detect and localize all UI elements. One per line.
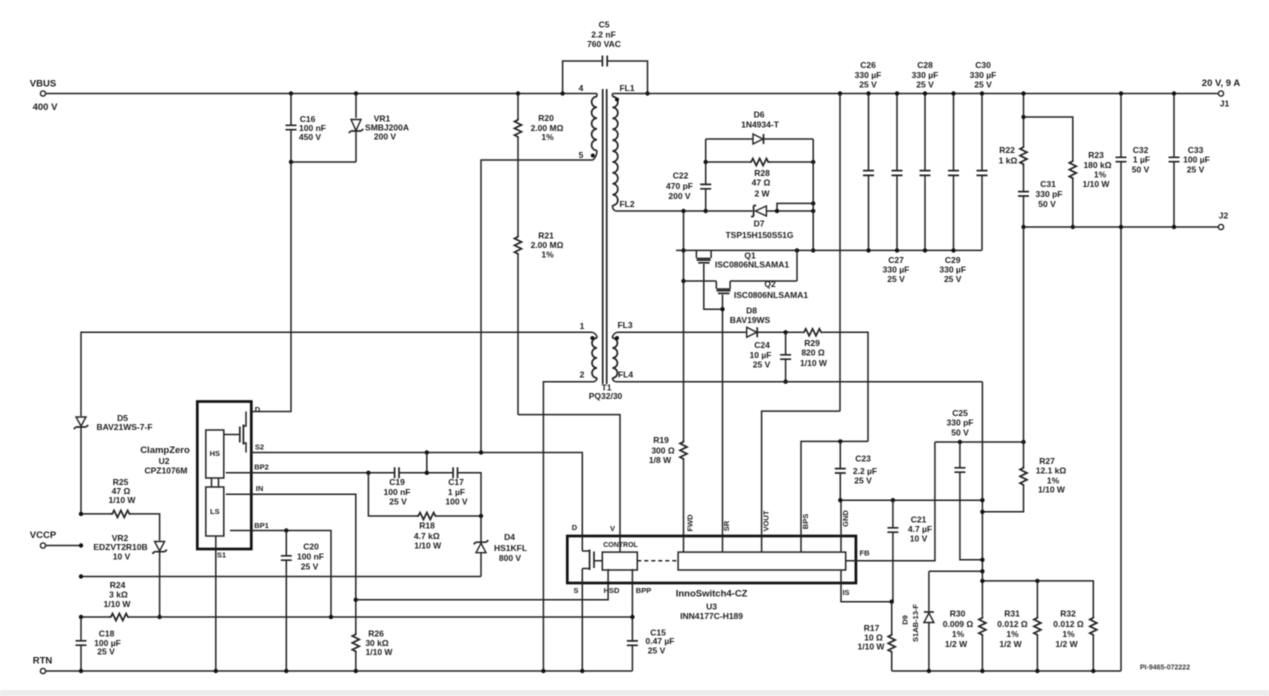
svg-text:S2: S2 xyxy=(255,443,264,452)
wire U2 BP1 xyxy=(251,531,331,618)
svg-text:IS: IS xyxy=(842,588,849,597)
junction S2/C19-C17 mid riser xyxy=(425,450,429,454)
junction gates xyxy=(720,307,724,311)
junction gnd bus at sense line xyxy=(980,498,984,502)
resistor R17 xyxy=(888,633,895,654)
node J1 terminal xyxy=(1218,91,1223,96)
diode D4 xyxy=(480,516,482,542)
svg-text:D9: D9 xyxy=(901,615,910,625)
junction C16 bottom xyxy=(289,160,293,164)
svg-text:R32: R32 xyxy=(1060,609,1076,619)
svg-text:C22: C22 xyxy=(673,171,689,181)
U3 control block xyxy=(602,552,637,570)
svg-text:10 µF: 10 µF xyxy=(750,350,772,360)
junction bus at R31 xyxy=(1035,579,1039,583)
junction C24 top xyxy=(783,330,787,334)
svg-text:1/8 W: 1/8 W xyxy=(649,455,672,465)
wire J2 return rail xyxy=(1024,226,1219,228)
svg-text:FL2: FL2 xyxy=(619,199,634,209)
svg-text:470 pF: 470 pF xyxy=(666,181,693,191)
transformer bias winding pins 1-2 xyxy=(592,338,597,378)
svg-text:25 V: 25 V xyxy=(648,645,666,655)
svg-text:LS: LS xyxy=(210,507,220,516)
junction R26 at RTN xyxy=(354,669,358,673)
capacitor C31 xyxy=(1018,192,1029,196)
junction S at RTN xyxy=(580,669,584,673)
junction BP2 loop mid xyxy=(425,471,429,475)
junction C16 top xyxy=(289,91,293,95)
transformer T1 core xyxy=(603,89,607,384)
svg-text:820 Ω: 820 Ω xyxy=(801,348,825,358)
wire FL4 node down sense bus xyxy=(981,382,983,616)
junction D9 at sense line xyxy=(980,569,984,573)
bottom gray band xyxy=(0,690,1269,696)
svg-text:CPZ1076M: CPZ1076M xyxy=(145,465,188,475)
svg-text:C26: C26 xyxy=(860,60,876,70)
svg-text:1: 1 xyxy=(580,321,585,331)
wire Q source bus right edge xyxy=(796,250,798,281)
svg-text:C5: C5 xyxy=(599,20,610,30)
wire VBUS secondary rail to J1 xyxy=(612,93,1218,95)
junction R27 top of rail xyxy=(1021,225,1025,229)
svg-text:C25: C25 xyxy=(952,408,968,418)
junction Q1 source box right xyxy=(795,248,799,252)
junction VCCP xyxy=(79,543,83,547)
resistor R21 xyxy=(515,235,522,256)
svg-text:1%: 1% xyxy=(952,629,965,639)
wire riser S2 to BP2 loop mid xyxy=(426,453,428,473)
wire VBUS top rail (primary segment) xyxy=(46,93,597,95)
junction BP1/C20 xyxy=(284,528,288,532)
svg-text:FL1: FL1 xyxy=(619,83,634,93)
wire GND riser xyxy=(840,500,842,536)
wire IS pin link xyxy=(841,570,892,602)
svg-text:4.7 µF: 4.7 µF xyxy=(908,524,932,534)
svg-text:25 V: 25 V xyxy=(974,79,992,89)
junction VR2 bottom xyxy=(157,615,161,619)
svg-text:200 V: 200 V xyxy=(374,132,397,142)
junction R31 at return rail xyxy=(1035,669,1039,673)
U3 secondary block xyxy=(678,552,846,570)
svg-text:R27: R27 xyxy=(1039,456,1055,466)
transistor Q2 xyxy=(715,281,717,289)
svg-text:400 V: 400 V xyxy=(33,102,58,113)
svg-text:BPS: BPS xyxy=(801,514,810,529)
IC U2 ClampZero xyxy=(197,402,251,550)
svg-text:100 µF: 100 µF xyxy=(1183,155,1210,165)
wire VOUT sense riser xyxy=(839,94,841,412)
svg-text:BAV19WS: BAV19WS xyxy=(730,315,771,325)
svg-text:1/10 W: 1/10 W xyxy=(1083,179,1111,189)
polarity dot pin1 xyxy=(590,336,594,340)
svg-text:ClampZero: ClampZero xyxy=(140,445,190,456)
junction D7 jog xyxy=(775,209,779,213)
junction pin2 at RTN xyxy=(541,669,545,673)
wire BPP pin down xyxy=(631,569,633,641)
svg-text:D4: D4 xyxy=(504,532,515,542)
svg-text:D7: D7 xyxy=(754,219,765,229)
node VCCP terminal xyxy=(40,543,45,548)
wire U3 S pin to RTN xyxy=(581,583,583,671)
junction D4 rail at D5 line xyxy=(79,574,83,578)
wire Q2 drain bus xyxy=(684,280,798,282)
svg-text:50 V: 50 V xyxy=(1132,164,1150,174)
svg-text:0.012 Ω: 0.012 Ω xyxy=(1053,619,1084,629)
wire secondary return rail xyxy=(892,670,1121,672)
svg-text:FWD: FWD xyxy=(686,514,695,532)
junction R32 at return rail xyxy=(1091,669,1095,673)
svg-text:C24: C24 xyxy=(754,340,770,350)
capacitor C19 xyxy=(395,467,399,478)
svg-text:5: 5 xyxy=(579,150,584,160)
wire FB link xyxy=(846,442,935,561)
svg-text:25 V: 25 V xyxy=(301,561,319,571)
diode D6 xyxy=(706,138,814,140)
svg-text:25 V: 25 V xyxy=(859,79,877,89)
svg-text:100 nF: 100 nF xyxy=(297,552,324,562)
svg-text:GND: GND xyxy=(841,510,850,527)
svg-text:TSP15H150S51G: TSP15H150S51G xyxy=(725,230,793,240)
junction S1 at RTN xyxy=(214,669,218,673)
svg-text:VCCP: VCCP xyxy=(30,530,57,541)
svg-text:47 Ω: 47 Ω xyxy=(752,178,771,188)
wire HSD link xyxy=(356,569,608,600)
svg-text:25 V: 25 V xyxy=(944,274,962,284)
svg-text:D: D xyxy=(572,523,578,532)
svg-text:C20: C20 xyxy=(303,542,319,552)
svg-text:Q2: Q2 xyxy=(764,279,776,289)
svg-text:IN: IN xyxy=(256,484,264,493)
wire BPP supply rail xyxy=(81,616,632,618)
svg-text:HSD: HSD xyxy=(604,586,620,595)
svg-text:330 µF: 330 µF xyxy=(912,70,939,80)
transformer output winding FL3-FL4 xyxy=(612,338,617,378)
svg-text:1 kΩ: 1 kΩ xyxy=(999,155,1018,165)
capacitor C28 xyxy=(924,94,926,251)
transistor Q1 xyxy=(695,250,697,258)
junction FWD riser top xyxy=(681,209,685,213)
wire FWD riser (FL2 node down to FWD pin) xyxy=(683,211,685,440)
wire sense resistor top bus xyxy=(982,581,1093,616)
svg-text:2.2 µF: 2.2 µF xyxy=(853,466,877,476)
wire gnd node bus xyxy=(840,499,982,501)
svg-text:BP1: BP1 xyxy=(254,521,269,530)
wire FL4 output xyxy=(615,381,982,383)
polarity dot FL1 xyxy=(615,98,619,102)
junction R27 at FB bus xyxy=(1021,440,1025,444)
capacitor C24 xyxy=(785,332,787,381)
svg-text:1N4934-T: 1N4934-T xyxy=(741,119,780,129)
svg-text:HS: HS xyxy=(210,449,220,458)
capacitor C20 xyxy=(285,531,287,672)
wire pin2 to RTN xyxy=(543,382,594,671)
svg-text:1 µF: 1 µF xyxy=(1133,155,1150,165)
wire pin5 to S2 node xyxy=(481,160,593,453)
svg-text:FB: FB xyxy=(860,549,871,558)
resistor R30 xyxy=(979,616,986,637)
svg-text:R19: R19 xyxy=(653,435,669,445)
resistor R24 xyxy=(109,614,130,621)
svg-text:1/10 W: 1/10 W xyxy=(104,599,132,609)
junction BPP at supply rail xyxy=(630,615,634,619)
junction VR1 top xyxy=(354,91,358,95)
svg-text:330 µF: 330 µF xyxy=(970,70,997,80)
svg-text:InnoSwitch4-CZ: InnoSwitch4-CZ xyxy=(676,589,748,600)
svg-text:0.012 Ω: 0.012 Ω xyxy=(997,619,1028,629)
svg-text:0.009 Ω: 0.009 Ω xyxy=(943,619,974,629)
junction C24 bottom xyxy=(783,380,787,384)
junction jog right top xyxy=(811,201,815,205)
junction rail at D5 line xyxy=(79,615,83,619)
resistor R26 xyxy=(352,633,359,654)
svg-text:1/10 W: 1/10 W xyxy=(1038,485,1066,495)
junction R20 top xyxy=(516,91,520,95)
svg-text:300 Ω: 300 Ω xyxy=(651,445,675,455)
svg-text:ISC0806NLSAMA1: ISC0806NLSAMA1 xyxy=(734,290,808,300)
svg-text:180 kΩ: 180 kΩ xyxy=(1083,160,1111,170)
junction C21 top xyxy=(891,498,895,502)
capacitor C29 xyxy=(953,94,955,251)
diode D5 xyxy=(76,417,86,426)
junction R30 at return rail xyxy=(980,669,984,673)
junction VOUT riser at +20V rail xyxy=(838,91,842,95)
junction R25 left xyxy=(79,512,83,516)
svg-text:C30: C30 xyxy=(975,60,991,70)
transformer primary winding pins 4-5 xyxy=(596,94,598,97)
svg-text:330 µF: 330 µF xyxy=(855,70,882,80)
svg-text:CONTROL: CONTROL xyxy=(603,542,638,549)
U3 secondary pin stubs xyxy=(620,536,841,552)
wire snubber right edge down xyxy=(812,139,814,250)
junction R22/R23 split xyxy=(1021,115,1025,119)
wire C16/VR1 bottom link xyxy=(291,161,356,163)
resistor R23 xyxy=(1024,117,1073,159)
U2 internal mosfet xyxy=(224,412,246,453)
svg-text:1 µF: 1 µF xyxy=(448,487,465,497)
capacitor C22 xyxy=(705,139,707,211)
svg-text:ISC0806NLSAMA1: ISC0806NLSAMA1 xyxy=(715,260,789,270)
U2 block neck xyxy=(212,478,219,487)
wire VOUT riser lower xyxy=(762,411,840,536)
junction C22 at FL2 xyxy=(704,209,708,213)
svg-text:S1AB-13-F: S1AB-13-F xyxy=(911,604,920,642)
svg-text:1%: 1% xyxy=(541,132,554,142)
svg-text:12.1 kΩ: 12.1 kΩ xyxy=(1036,466,1067,476)
svg-text:VOUT: VOUT xyxy=(762,510,771,531)
zener VR2 xyxy=(155,542,165,552)
resistor R22 xyxy=(1023,94,1025,146)
capacitor C5 xyxy=(563,61,648,94)
svg-text:C31: C31 xyxy=(1040,179,1056,189)
node RTN terminal xyxy=(40,668,45,673)
wire U2 IN to R26/HSD node xyxy=(251,494,355,632)
junction FL1 rail xyxy=(645,91,649,95)
wire secondary ground bus xyxy=(676,249,982,251)
svg-text:4: 4 xyxy=(579,83,584,93)
junction S2/pin5 xyxy=(479,450,483,454)
junction snubber at gnd bus xyxy=(811,248,815,252)
svg-text:D8: D8 xyxy=(746,305,757,315)
junction C25 bottom at sense line xyxy=(980,558,984,562)
wire U2 S1 down xyxy=(215,549,217,671)
svg-text:20 V, 9 A: 20 V, 9 A xyxy=(1202,78,1241,89)
svg-text:FL4: FL4 xyxy=(618,370,633,380)
resistor R29 xyxy=(802,329,823,336)
resistor R27 xyxy=(1023,227,1025,466)
svg-text:800 V: 800 V xyxy=(499,553,522,563)
node VBUS terminal xyxy=(40,91,45,96)
svg-text:VBUS: VBUS xyxy=(30,79,56,90)
U3 dashed link xyxy=(637,560,678,562)
svg-text:25 V: 25 V xyxy=(916,79,934,89)
svg-text:1/2 W: 1/2 W xyxy=(945,639,968,649)
resistor R25 xyxy=(81,513,111,515)
svg-text:25 V: 25 V xyxy=(97,647,115,657)
wire FL2 output xyxy=(615,210,705,212)
resistor R28 xyxy=(706,161,750,163)
svg-text:25 V: 25 V xyxy=(1187,164,1205,174)
junction R28 right xyxy=(811,160,815,164)
svg-text:FL3: FL3 xyxy=(617,320,632,330)
capacitor C15 xyxy=(627,641,638,645)
svg-text:R30: R30 xyxy=(950,609,966,619)
svg-text:330 µF: 330 µF xyxy=(883,264,910,274)
svg-text:PI-9465-072222: PI-9465-072222 xyxy=(1140,664,1190,671)
svg-text:200 V: 200 V xyxy=(668,191,691,201)
svg-text:1/10 W: 1/10 W xyxy=(858,641,886,651)
svg-text:1/10 W: 1/10 W xyxy=(414,541,442,551)
wire U2 S2 to U3 D xyxy=(251,453,582,537)
junction bus at R30 xyxy=(980,579,984,583)
capacitor C25 xyxy=(960,442,983,560)
U3 internal mosfet xyxy=(582,536,602,583)
svg-text:1/10 W: 1/10 W xyxy=(366,647,394,657)
svg-text:R31: R31 xyxy=(1004,609,1020,619)
svg-text:1/10 W: 1/10 W xyxy=(800,358,828,368)
svg-text:SR: SR xyxy=(722,520,731,531)
svg-text:2.2 nF: 2.2 nF xyxy=(591,29,616,39)
svg-text:25 V: 25 V xyxy=(389,497,407,507)
junction IN riser at HSD wire xyxy=(354,598,358,602)
svg-text:BP2: BP2 xyxy=(254,463,269,472)
svg-text:4.7 kΩ: 4.7 kΩ xyxy=(414,531,440,541)
svg-text:R22: R22 xyxy=(999,145,1015,155)
svg-text:25 V: 25 V xyxy=(753,360,771,370)
svg-text:1%: 1% xyxy=(1062,629,1075,639)
junction IS node xyxy=(890,600,894,604)
junction R23 bottom xyxy=(1071,225,1075,229)
svg-text:C23: C23 xyxy=(855,453,871,463)
capacitor C17 xyxy=(453,467,457,478)
svg-text:1/2 W: 1/2 W xyxy=(999,639,1022,649)
svg-text:330 pF: 330 pF xyxy=(1036,189,1063,199)
svg-text:2 W: 2 W xyxy=(754,189,770,199)
svg-text:R29: R29 xyxy=(804,338,820,348)
junction C25 top xyxy=(958,440,962,444)
junction riser at gnd bus xyxy=(681,248,685,252)
svg-text:3 kΩ: 3 kΩ xyxy=(109,590,128,600)
junction R27 bottom at sense line xyxy=(980,510,984,514)
svg-text:BAV21WS-7-F: BAV21WS-7-F xyxy=(96,422,152,432)
capacitor C21 xyxy=(892,500,894,602)
resistor R20 xyxy=(517,94,519,119)
svg-text:R23: R23 xyxy=(1088,150,1104,160)
svg-text:BPP: BPP xyxy=(636,586,651,595)
svg-text:100 V: 100 V xyxy=(445,497,468,507)
svg-text:R21: R21 xyxy=(538,230,554,240)
wire R21 bottom over to V pin xyxy=(518,415,620,536)
capacitor C30 xyxy=(981,94,983,251)
wire U2 BP2 loop top xyxy=(251,473,481,514)
wire Q1 gate xyxy=(704,264,723,309)
diode D8 xyxy=(747,327,757,337)
junction BP1 riser at rail xyxy=(329,615,333,619)
svg-text:C28: C28 xyxy=(917,60,933,70)
junction C23 bottom xyxy=(838,498,842,502)
wire FL3 output xyxy=(617,331,747,333)
svg-text:1%: 1% xyxy=(1006,629,1019,639)
resistor R19 xyxy=(680,440,687,461)
U2 HS block xyxy=(206,430,224,478)
wire Q2 gate to SR xyxy=(722,295,724,536)
U2 internal stubs xyxy=(216,473,252,549)
capacitor C18 xyxy=(80,617,82,671)
svg-text:25 V: 25 V xyxy=(887,274,905,284)
capacitor C16 xyxy=(290,94,292,163)
svg-text:1/10 W: 1/10 W xyxy=(109,495,137,505)
wire BPS riser xyxy=(801,441,868,536)
svg-text:R18: R18 xyxy=(419,521,435,531)
svg-text:INN4177C-H189: INN4177C-H189 xyxy=(680,611,743,621)
wire RTN rail (primary) xyxy=(46,670,633,672)
diode D9 xyxy=(928,571,930,611)
capacitor C27 xyxy=(896,94,898,251)
svg-text:D6: D6 xyxy=(754,110,765,120)
wire D4 anode rail xyxy=(81,576,481,578)
svg-text:50 V: 50 V xyxy=(1038,199,1056,209)
capacitor C23 xyxy=(839,441,841,500)
svg-text:C33: C33 xyxy=(1188,145,1204,155)
svg-text:1%: 1% xyxy=(1094,170,1107,180)
svg-text:S1: S1 xyxy=(217,551,226,560)
svg-text:D: D xyxy=(255,405,261,414)
U2 LS block xyxy=(206,487,224,536)
svg-text:S: S xyxy=(573,586,578,595)
polarity dot FL3 xyxy=(615,336,619,340)
wire pin1 to D5 xyxy=(81,332,593,416)
svg-text:760 VAC: 760 VAC xyxy=(587,39,621,49)
TVS VR1 xyxy=(355,94,357,163)
resistor R18 xyxy=(368,473,416,516)
junction R22 top xyxy=(1021,91,1025,95)
junction C18 bottom xyxy=(79,669,83,673)
diode D7 xyxy=(706,210,777,212)
svg-text:C27: C27 xyxy=(888,255,904,265)
svg-text:J1: J1 xyxy=(1220,99,1230,109)
svg-text:50 V: 50 V xyxy=(951,428,969,438)
junction C23 top xyxy=(838,439,842,443)
svg-text:1/2 W: 1/2 W xyxy=(1055,639,1078,649)
resistor R31 xyxy=(1036,581,1038,616)
junction riser at Q2 drain wire xyxy=(681,279,685,283)
wire D9 top link xyxy=(929,570,983,572)
capacitor C26 xyxy=(868,94,870,251)
svg-text:RTN: RTN xyxy=(33,656,53,667)
svg-text:C32: C32 xyxy=(1133,145,1149,155)
junction BP2 loop left xyxy=(366,471,370,475)
svg-text:C17: C17 xyxy=(448,477,464,487)
capacitor C32 xyxy=(1120,94,1122,672)
